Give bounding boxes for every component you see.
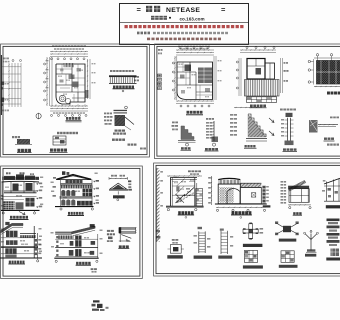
svg-text:NETEASE: NETEASE (166, 7, 200, 14)
svg-text:=: = (221, 5, 226, 14)
svg-text:=: = (137, 5, 142, 14)
svg-text:co.163.com: co.163.com (180, 16, 205, 21)
